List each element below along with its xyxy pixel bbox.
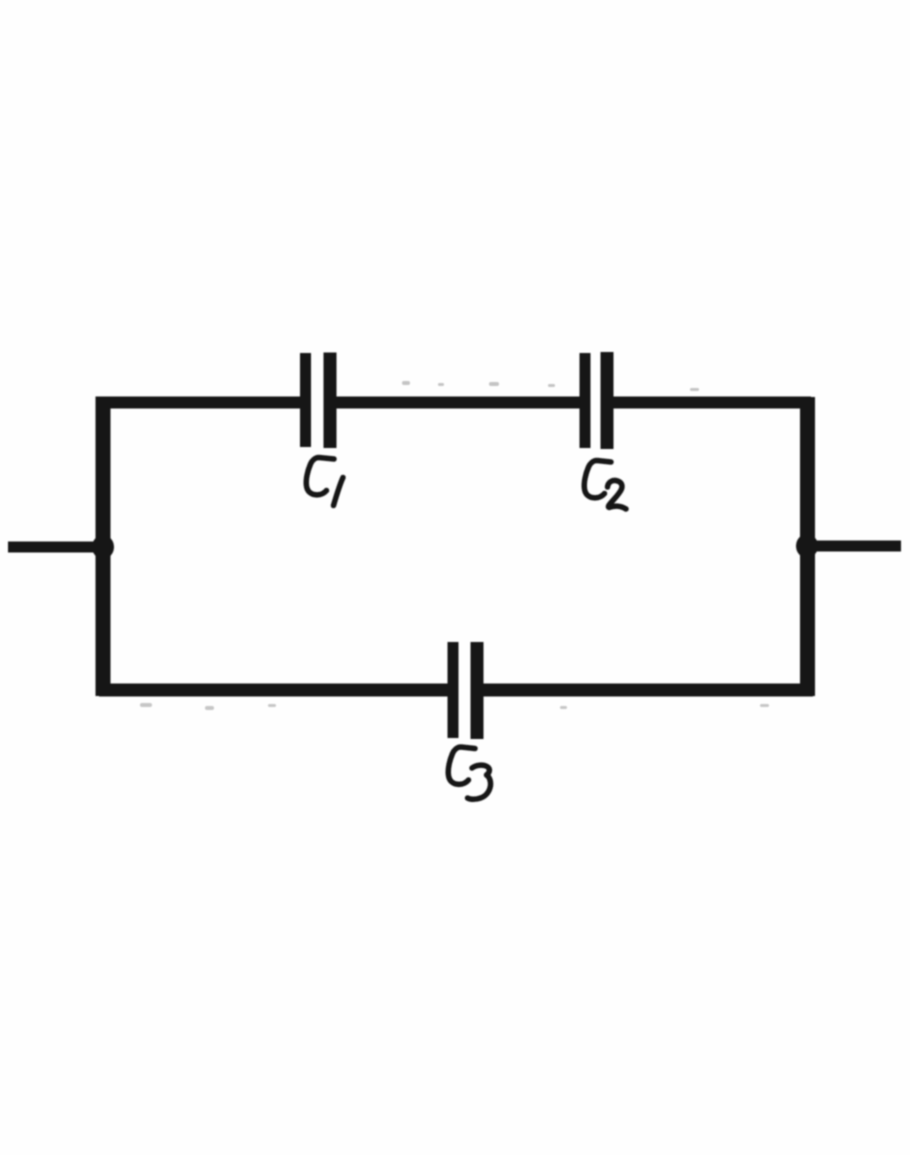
node: right junction dot (796, 534, 818, 558)
wire: top segment right of C2 (607, 397, 811, 409)
capacitor C3 (453, 642, 477, 739)
wire: bottom segment right of C3 (477, 684, 813, 697)
label C1 (306, 458, 343, 506)
wire: top segment between C1 and C2 (330, 397, 585, 409)
wire: top segment left of C1 (99, 397, 305, 409)
node: left junction dot (92, 535, 114, 559)
scan speckles below bottom wire (140, 703, 769, 710)
label C2 (584, 461, 626, 510)
capacitor C1 (306, 353, 331, 449)
wire: bottom segment left of C3 (99, 684, 453, 697)
label C3 (448, 747, 490, 799)
wire: right vertical side (800, 397, 815, 696)
wire: left input lead (8, 542, 100, 553)
wire: right output lead (807, 541, 901, 552)
wire: left vertical side (96, 397, 111, 697)
capacitor C2 (585, 352, 607, 449)
scan speckles above top wire (402, 381, 699, 391)
